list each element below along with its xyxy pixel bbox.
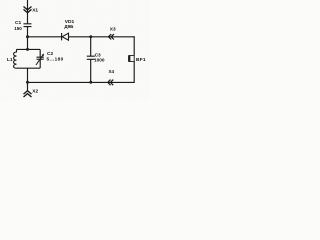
wire: C3 branch vertical (90, 37, 92, 83)
earphone BF1 (thick bar + square) (130, 55, 134, 61)
connector X1 (antenna plug, chevrons pointing down) (24, 7, 32, 13)
paper grain overlay (0, 0, 150, 100)
wire: tank bottom to bottom rail (27, 68, 29, 82)
wire: top rail from node A to diode (28, 36, 62, 38)
wire: C1 bottom to tank top junction (27, 27, 29, 50)
junction node bottom C3 (89, 81, 92, 84)
wire: bottom rail (28, 81, 135, 83)
connector X4 (chevrons on bottom rail) (108, 80, 113, 86)
wire: ground drop to X2 (27, 82, 29, 91)
tank top wire (17, 48, 41, 50)
capacitor C1 plates (24, 24, 32, 27)
capacitor C2 plates (37, 57, 44, 59)
capacitor C3 plates (87, 56, 95, 59)
junction node bottom left (26, 81, 29, 84)
diode VD1 (cathode bar left, outlined triangle) (62, 33, 69, 40)
wire: antenna lead-in from top edge to C1 (27, 0, 29, 24)
connector X2 (ground plug, chevrons pointing up) (24, 91, 32, 97)
wire: diode to node B (69, 36, 92, 38)
wire: BF1 to bottom rail corner (133, 62, 135, 83)
junction node tank top (26, 48, 29, 51)
wire: node B to connector X3 (91, 36, 135, 38)
variable capacitor C2 branch (39, 49, 41, 68)
tank bottom wire (17, 67, 41, 69)
C2 arrowhead (42, 54, 44, 57)
wire: right vertical down to BF1 (133, 36, 135, 55)
junction node A (26, 35, 29, 38)
junction node B (89, 35, 92, 38)
inductor L1 (4 arcs bulging left) (13, 49, 16, 68)
C2 variable arrow (36, 55, 43, 65)
connector X3 (chevrons on top rail) (109, 34, 114, 39)
